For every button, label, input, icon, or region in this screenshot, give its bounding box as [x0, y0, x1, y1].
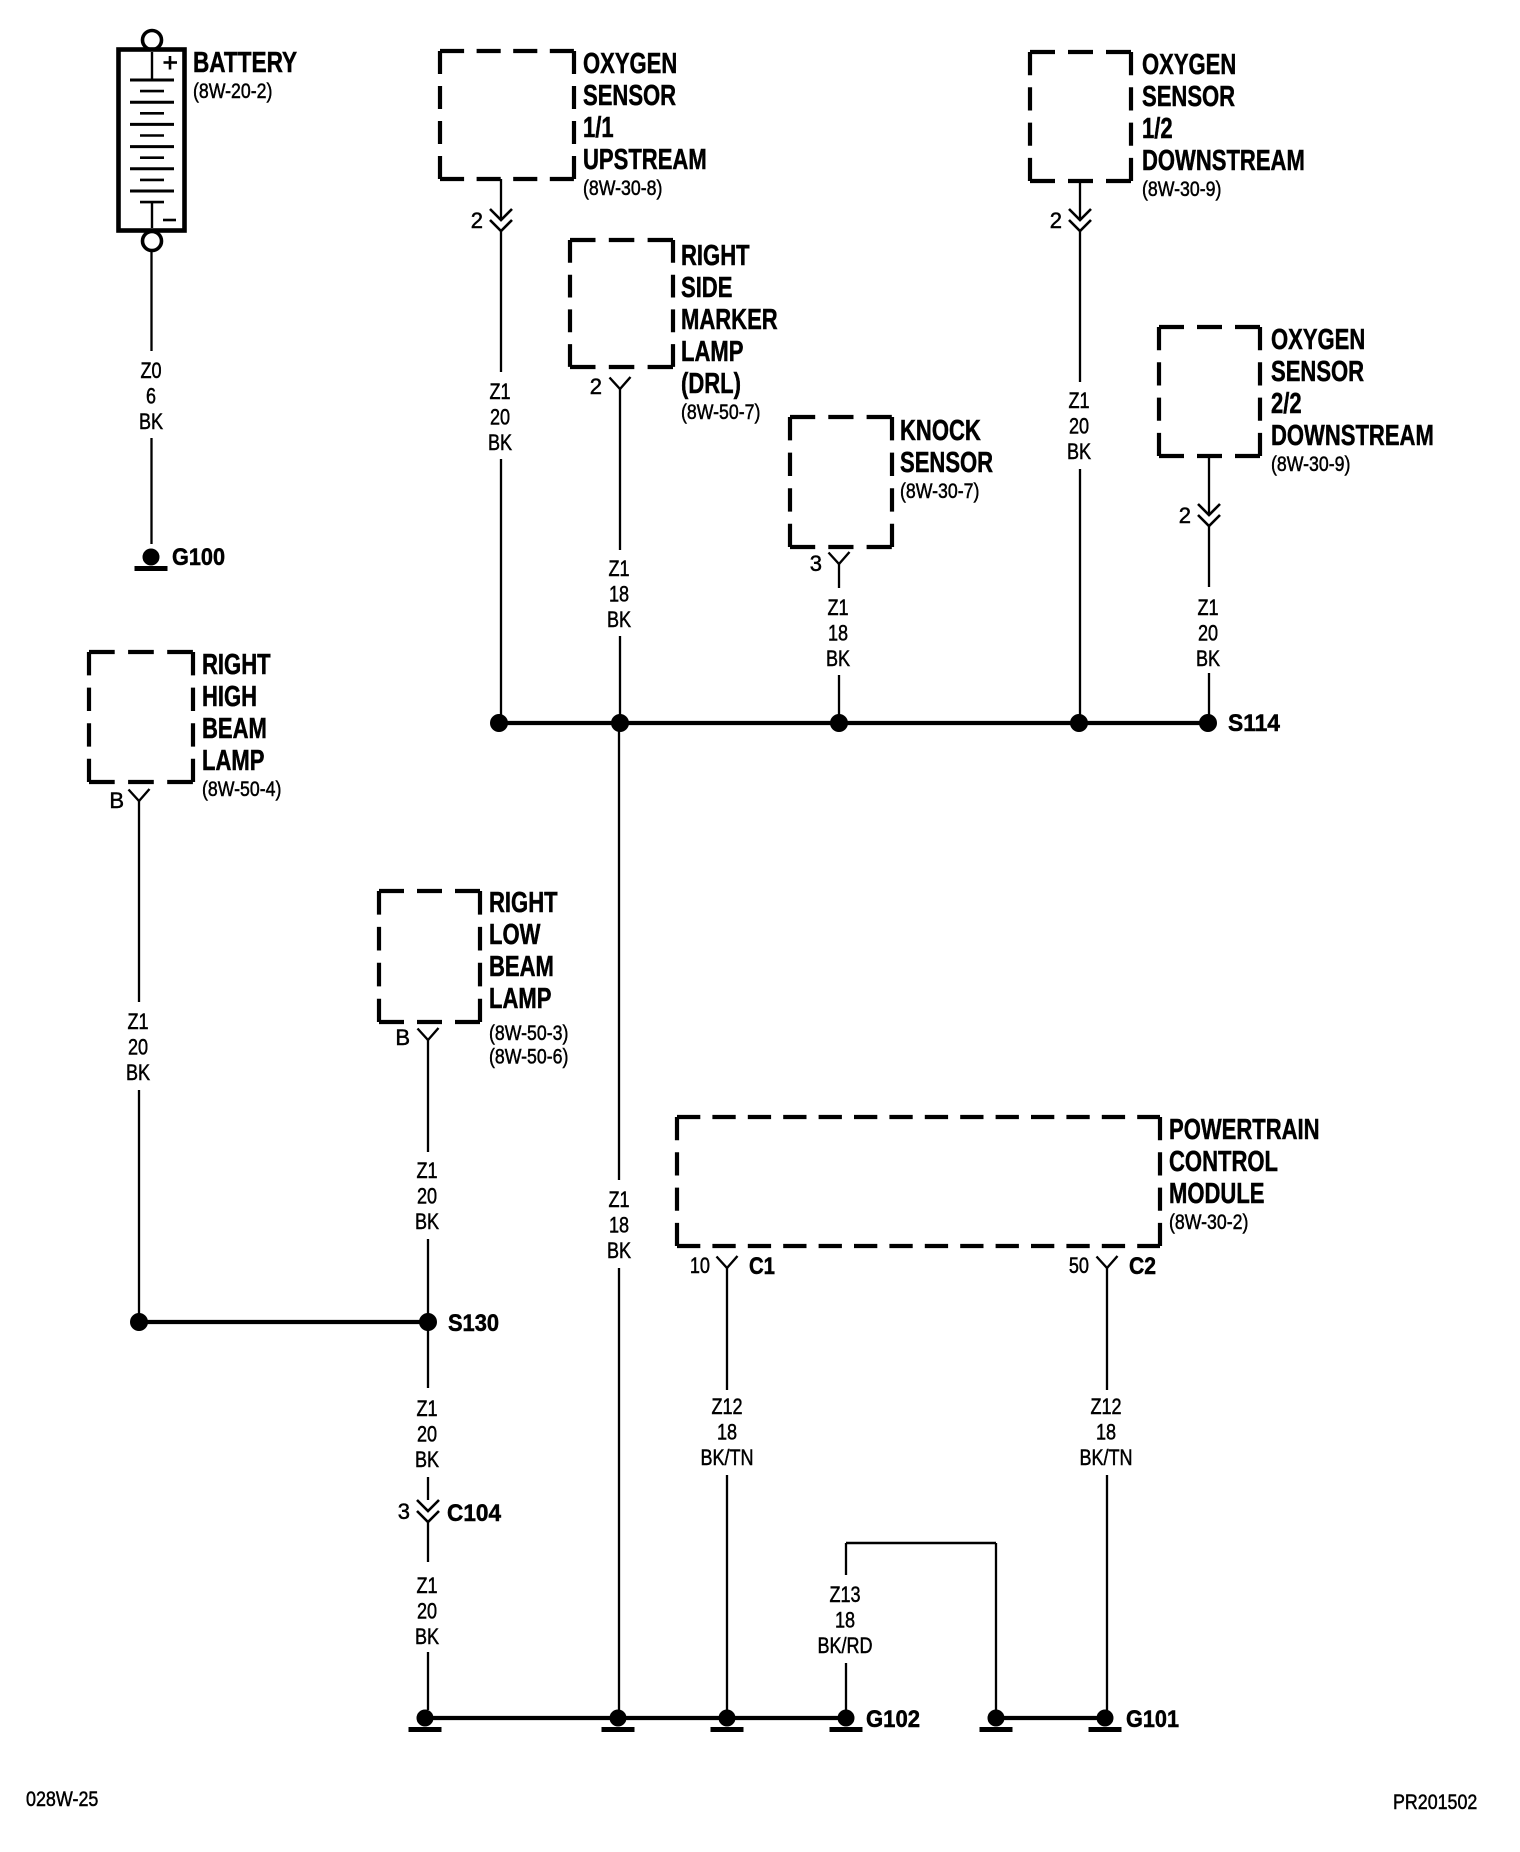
svg-text:SENSOR: SENSOR	[1142, 81, 1235, 113]
wire Z0 6 BK from battery to G100	[150, 251, 152, 352]
connector C2 pin 50	[1097, 1256, 1118, 1268]
splice S114 bus	[499, 721, 1208, 725]
svg-text:PR201502: PR201502	[1393, 1791, 1477, 1814]
svg-text:BK: BK	[415, 1624, 439, 1649]
svg-text:MODULE: MODULE	[1169, 1178, 1265, 1210]
svg-text:2: 2	[1050, 208, 1062, 233]
wire Z13 18 BK/RD jumper between G102 and G101	[846, 1542, 996, 1545]
svg-text:Z1: Z1	[416, 1396, 437, 1421]
svg-text:LOW: LOW	[489, 919, 541, 951]
svg-text:BK/TN: BK/TN	[1079, 1445, 1132, 1470]
svg-text:Z1: Z1	[1197, 595, 1218, 620]
ground (Z13 branch)	[988, 1710, 1004, 1726]
wire Z1 20 BK from S130 to C104	[427, 1322, 429, 1388]
svg-text:Z1: Z1	[489, 379, 510, 404]
svg-text:BK/RD: BK/RD	[817, 1633, 872, 1658]
wire Z1 20 BK from high beam to S130	[138, 801, 140, 1002]
svg-text:SENSOR: SENSOR	[1271, 356, 1364, 388]
svg-text:POWERTRAIN: POWERTRAIN	[1169, 1114, 1320, 1146]
svg-text:(8W-30-2): (8W-30-2)	[1169, 1211, 1248, 1234]
svg-text:50: 50	[1069, 1253, 1089, 1278]
svg-text:6: 6	[146, 384, 156, 409]
svg-text:3: 3	[810, 551, 822, 576]
wire Z1 18 BK from S114 down to ground	[618, 723, 620, 1180]
oxygen sensor 1/1 upstream box	[440, 49, 574, 53]
svg-text:RIGHT: RIGHT	[202, 649, 271, 681]
wire Z12 18 BK/TN from PCM C1 to G102	[726, 1268, 728, 1390]
svg-text:RIGHT: RIGHT	[681, 240, 750, 272]
svg-text:20: 20	[1069, 414, 1089, 439]
svg-text:18: 18	[1096, 1420, 1116, 1445]
junction dot (O2S 1/1 wire)	[491, 715, 508, 732]
wire Z1 20 BK from C104 to ground	[427, 1522, 429, 1562]
svg-text:C2: C2	[1129, 1253, 1156, 1280]
svg-text:C1: C1	[749, 1253, 775, 1280]
svg-text:18: 18	[609, 582, 629, 607]
svg-text:2: 2	[471, 208, 483, 233]
ground bus G101	[996, 1716, 1105, 1720]
svg-text:18: 18	[609, 1213, 629, 1238]
wire from oxygen sensor 1/1	[500, 179, 502, 219]
svg-text:Z1: Z1	[608, 1187, 629, 1212]
svg-text:(8W-30-8): (8W-30-8)	[583, 177, 662, 200]
ground bus G102	[425, 1716, 846, 1720]
wire from oxygen sensor 1/2	[1079, 181, 1081, 219]
svg-text:BK: BK	[826, 646, 850, 671]
connector pin B (high beam)	[129, 789, 150, 801]
right side marker lamp (DRL) box	[570, 238, 673, 242]
svg-text:20: 20	[1198, 621, 1218, 646]
connector pin 2 (marker lamp)	[610, 377, 631, 389]
powertrain control module box	[677, 1115, 1160, 1119]
svg-text:OXYGEN: OXYGEN	[1142, 49, 1236, 81]
svg-text:BK: BK	[607, 1238, 631, 1263]
svg-text:BK: BK	[415, 1447, 439, 1472]
svg-text:B: B	[395, 1025, 410, 1050]
svg-text:Z0: Z0	[140, 358, 161, 383]
oxygen sensor 2/2 downstream box	[1159, 325, 1260, 329]
svg-text:DOWNSTREAM: DOWNSTREAM	[1271, 420, 1434, 452]
svg-text:BK: BK	[1196, 646, 1220, 671]
wire Z1 20 BK to S114	[1208, 526, 1210, 587]
svg-text:18: 18	[828, 621, 848, 646]
svg-text:(8W-50-7): (8W-50-7)	[681, 401, 760, 424]
junction dot (O2S 1/2 wire)	[1071, 715, 1088, 732]
battery (8W-20-2)	[143, 31, 162, 50]
connector C1 pin 10	[717, 1256, 738, 1268]
svg-text:SIDE: SIDE	[681, 272, 732, 304]
connector pin 3 (knock sensor)	[829, 552, 850, 564]
svg-text:Z1: Z1	[127, 1009, 148, 1034]
oxygen sensor 1/2 downstream box	[1030, 50, 1131, 54]
svg-text:20: 20	[490, 405, 510, 430]
svg-text:KNOCK: KNOCK	[900, 415, 981, 447]
svg-text:(DRL): (DRL)	[681, 368, 741, 400]
svg-text:(8W-30-9): (8W-30-9)	[1271, 453, 1350, 476]
wire Z1 20 BK from low beam to S130	[427, 1040, 429, 1152]
wire (Z13 right leg)	[995, 1543, 997, 1710]
svg-text:Z12: Z12	[1090, 1394, 1121, 1419]
svg-text:SENSOR: SENSOR	[900, 447, 993, 479]
svg-text:OXYGEN: OXYGEN	[583, 48, 677, 80]
junction dot (high beam wire)	[131, 1314, 148, 1331]
svg-text:(8W-50-6): (8W-50-6)	[489, 1046, 568, 1069]
svg-text:20: 20	[417, 1422, 437, 1447]
in-line connector pin 2 (oxygen sensor 2/2)	[1198, 504, 1220, 515]
junction dot (marker lamp wire)	[612, 715, 629, 732]
in-line connector C104 pin 3	[417, 1500, 439, 1511]
svg-text:Z1: Z1	[416, 1573, 437, 1598]
svg-text:20: 20	[417, 1599, 437, 1624]
svg-text:BATTERY: BATTERY	[193, 47, 297, 79]
svg-text:BK/TN: BK/TN	[700, 1445, 753, 1470]
wire Z1 18 BK from knock sensor to S114	[838, 564, 840, 588]
svg-text:1/1: 1/1	[583, 112, 614, 144]
in-line connector pin 2 (oxygen sensor 1/2)	[1069, 209, 1091, 220]
right low beam lamp box	[379, 889, 480, 893]
junction dot (knock sensor wire)	[831, 715, 848, 732]
svg-text:RIGHT: RIGHT	[489, 887, 558, 919]
svg-text:MARKER: MARKER	[681, 304, 778, 336]
svg-text:18: 18	[835, 1608, 855, 1633]
junction dot S130	[420, 1314, 437, 1331]
svg-text:20: 20	[128, 1035, 148, 1060]
svg-text:18: 18	[717, 1420, 737, 1445]
svg-text:BEAM: BEAM	[489, 951, 554, 983]
splice S130 bus	[139, 1320, 428, 1324]
svg-text:S114: S114	[1228, 710, 1281, 737]
svg-text:2/2: 2/2	[1271, 388, 1302, 420]
svg-text:G101: G101	[1126, 1706, 1179, 1733]
svg-text:Z12: Z12	[711, 1394, 742, 1419]
ground (PCM C1 branch)	[719, 1710, 735, 1726]
svg-text:2: 2	[590, 374, 602, 399]
svg-text:HIGH: HIGH	[202, 681, 257, 713]
svg-text:OXYGEN: OXYGEN	[1271, 324, 1365, 356]
svg-text:3: 3	[398, 1499, 410, 1524]
svg-text:G102: G102	[866, 1706, 920, 1733]
svg-text:Z1: Z1	[608, 556, 629, 581]
right high beam lamp box	[89, 650, 193, 654]
svg-text:BEAM: BEAM	[202, 713, 267, 745]
svg-text:S130: S130	[448, 1310, 499, 1337]
svg-text:Z1: Z1	[827, 595, 848, 620]
svg-text:SENSOR: SENSOR	[583, 80, 676, 112]
ground (marker lamp branch)	[610, 1710, 626, 1726]
svg-text:BK: BK	[1067, 439, 1091, 464]
svg-text:1/2: 1/2	[1142, 113, 1173, 145]
svg-text:(8W-30-9): (8W-30-9)	[1142, 178, 1221, 201]
junction dot S114 (O2S 2/2 wire)	[1200, 715, 1217, 732]
svg-text:Z13: Z13	[829, 1582, 860, 1607]
svg-text:2: 2	[1179, 503, 1191, 528]
ground G101 (PCM C2 branch)	[1097, 1710, 1113, 1726]
svg-text:CONTROL: CONTROL	[1169, 1146, 1278, 1178]
svg-text:(8W-20-2): (8W-20-2)	[193, 80, 272, 103]
knock sensor box	[790, 415, 892, 419]
svg-text:(8W-50-3): (8W-50-3)	[489, 1022, 568, 1045]
svg-text:C104: C104	[447, 1500, 502, 1527]
svg-text:DOWNSTREAM: DOWNSTREAM	[1142, 145, 1305, 177]
wire Z1 20 BK to S114	[1079, 231, 1081, 382]
svg-text:BK: BK	[139, 409, 163, 434]
svg-text:10: 10	[690, 1253, 710, 1278]
svg-text:G100: G100	[172, 544, 225, 571]
svg-text:(8W-50-4): (8W-50-4)	[202, 778, 281, 801]
wire Z1 20 BK to S114	[500, 231, 502, 372]
svg-text:LAMP: LAMP	[489, 983, 551, 1015]
wire Z12 18 BK/TN from PCM C2 to G101	[1106, 1268, 1108, 1390]
ground G100	[143, 549, 159, 565]
svg-text:B: B	[109, 788, 124, 813]
svg-text:(8W-30-7): (8W-30-7)	[900, 480, 979, 503]
svg-text:20: 20	[417, 1184, 437, 1209]
svg-text:028W-25: 028W-25	[26, 1788, 98, 1811]
svg-text:UPSTREAM: UPSTREAM	[583, 144, 707, 176]
svg-text:Z1: Z1	[416, 1158, 437, 1183]
svg-text:BK: BK	[126, 1060, 150, 1085]
svg-text:Z1: Z1	[1068, 388, 1089, 413]
ground (C104 branch)	[417, 1710, 433, 1726]
in-line connector pin 2 (oxygen sensor 1/1)	[490, 209, 512, 220]
wire from oxygen sensor 2/2	[1208, 456, 1210, 514]
svg-text:LAMP: LAMP	[202, 745, 264, 777]
svg-text:BK: BK	[607, 607, 631, 632]
svg-text:BK: BK	[488, 430, 512, 455]
ground G102	[838, 1710, 854, 1726]
svg-text:BK: BK	[415, 1209, 439, 1234]
connector pin B (low beam)	[418, 1028, 439, 1040]
wire Z1 18 BK from marker lamp to S114	[619, 389, 621, 550]
svg-text:LAMP: LAMP	[681, 336, 743, 368]
